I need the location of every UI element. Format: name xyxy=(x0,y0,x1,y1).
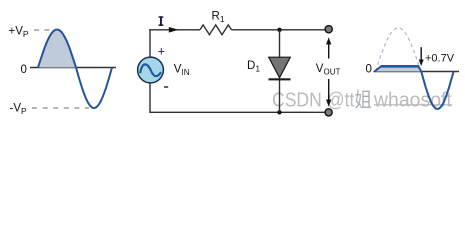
output terminal bottom xyxy=(325,109,332,116)
wire bottom rail xyxy=(149,111,325,113)
0.7V down arrow xyxy=(420,47,422,60)
label I xyxy=(159,16,164,26)
diode D1 cathode bar xyxy=(269,78,291,80)
svg-text:D1: D1 xyxy=(247,60,260,74)
clipped sliver fill between 0 and +0.7V xyxy=(375,66,422,71)
current arrow xyxy=(169,27,179,33)
output terminal top xyxy=(325,26,332,33)
svg-text:+0.7V: +0.7V xyxy=(425,52,455,64)
dashed unclipped peak arc xyxy=(376,28,421,71)
diode branch wire lower xyxy=(279,80,281,113)
input sine curve xyxy=(38,30,112,109)
svg-text:0: 0 xyxy=(366,64,372,76)
input axis xyxy=(30,67,116,69)
V_OUT lower arrow xyxy=(328,79,330,100)
wire left vertical bottom (source to bottom rail) xyxy=(149,84,151,113)
input sine positive half fill xyxy=(38,30,76,68)
svg-text:CSDN @tt姐: CSDN @tt姐 xyxy=(272,88,372,110)
diode branch wire upper xyxy=(279,30,281,58)
V_OUT upper arrow xyxy=(328,42,330,59)
output waveform solid curve xyxy=(375,66,454,109)
sine symbol inside source xyxy=(140,64,161,76)
svg-text:VIN: VIN xyxy=(174,63,190,77)
svg-text:R1: R1 xyxy=(212,10,225,24)
minus sign xyxy=(164,86,168,87)
dashed trough level line (input) xyxy=(32,107,89,109)
wire top rail right segment xyxy=(232,29,326,31)
wire left vertical top (source to top rail) xyxy=(149,30,151,57)
dashed peak level line (input) xyxy=(34,29,56,31)
svg-text:+VP: +VP xyxy=(9,25,29,39)
wire top rail left segment xyxy=(149,29,200,31)
watermark strikethrough xyxy=(374,104,452,106)
clip level thick segment xyxy=(381,65,419,68)
diode D1 triangle xyxy=(269,57,291,78)
resistor R1 zigzag xyxy=(200,25,232,35)
svg-text:+: + xyxy=(158,44,166,59)
svg-text:0: 0 xyxy=(21,64,27,76)
output axis xyxy=(374,71,460,73)
junction dot top (diode tap) xyxy=(277,28,281,32)
AC source V_IN circle xyxy=(138,57,164,83)
junction dot bottom xyxy=(277,110,281,114)
svg-text:VOUT: VOUT xyxy=(316,63,341,77)
svg-text:-VP: -VP xyxy=(10,102,28,116)
